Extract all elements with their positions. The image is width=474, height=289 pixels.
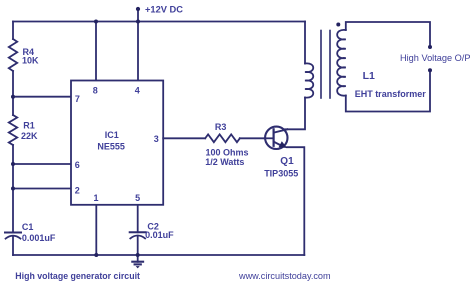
svg-text:5: 5 [135,193,140,203]
svg-text:1/2 Watts: 1/2 Watts [205,157,244,167]
svg-text:1: 1 [93,193,98,203]
svg-text:Q1: Q1 [280,156,294,167]
svg-text:6: 6 [75,160,80,170]
svg-text:3: 3 [154,134,159,144]
svg-text:L1: L1 [363,70,375,82]
svg-text:High voltage generator circuit: High voltage generator circuit [15,271,140,281]
svg-text:IC1: IC1 [105,130,119,140]
svg-text:4: 4 [135,86,140,96]
svg-text:EHT transformer: EHT transformer [355,89,427,99]
svg-text:10K: 10K [22,56,39,66]
svg-text:0.001uF: 0.001uF [22,233,56,243]
svg-text:R1: R1 [23,121,35,131]
svg-text:NE555: NE555 [97,142,125,152]
svg-text:TIP3055: TIP3055 [264,169,298,179]
svg-text:7: 7 [75,94,80,104]
svg-text:22K: 22K [21,131,38,141]
svg-text:C1: C1 [22,222,34,232]
svg-text:www.circuitstoday.com: www.circuitstoday.com [238,271,331,281]
svg-text:0.01uF: 0.01uF [145,230,174,240]
svg-text:+12V DC: +12V DC [145,5,183,15]
svg-text:2: 2 [75,186,80,196]
svg-text:R3: R3 [215,122,227,132]
svg-text:100 Ohms: 100 Ohms [206,148,249,158]
svg-text:High Voltage O/P: High Voltage O/P [400,53,470,63]
svg-text:8: 8 [93,86,98,96]
